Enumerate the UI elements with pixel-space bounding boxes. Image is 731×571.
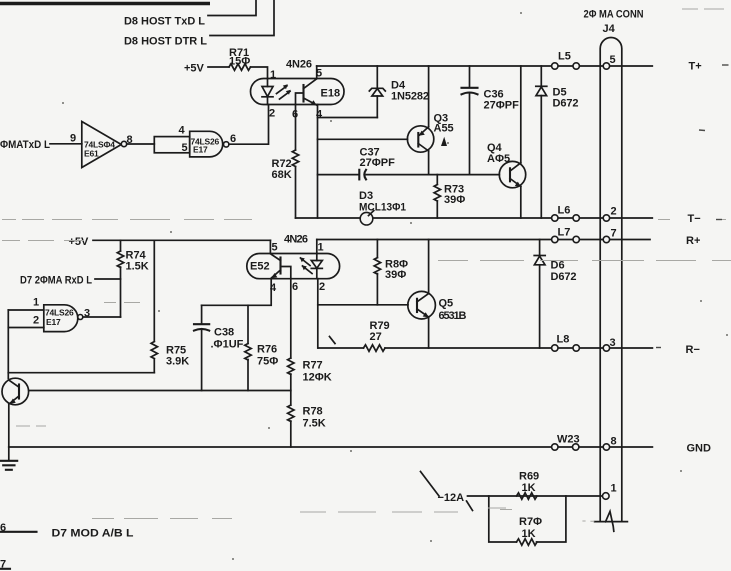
svg-text:27: 27 [370,331,382,343]
wire D8 HOST DTR L [210,0,274,36]
wire D8 HOST TXD L [208,0,256,16]
svg-text:4: 4 [179,125,186,137]
wire left vertical bus (pins 1,2 to Q6) [7,310,9,373]
node L7 loop [552,227,580,243]
svg-text:E18: E18 [321,88,341,100]
wire R- rail left part [318,347,363,349]
svg-text:5: 5 [610,54,616,66]
transistor Q6 (left edge) [2,373,29,447]
svg-text:T−: T− [688,213,701,225]
pen slash near E52 R- area [330,337,336,344]
svg-text:1.5K: 1.5K [126,261,149,273]
svg-text:ΦMATxD L: ΦMATxD L [0,139,50,151]
svg-text:R76: R76 [257,344,277,356]
svg-text:E17: E17 [46,317,61,327]
svg-text:E52: E52 [250,261,270,273]
wire R70 parallel loop [489,496,566,542]
diode D3 MCL1301 (on T- line) [359,190,406,225]
resistor R78 7.5K [288,405,326,447]
svg-text:4N26: 4N26 [284,234,308,246]
svg-text:−12A: −12A [438,492,465,504]
svg-text:1K: 1K [522,482,536,494]
transistor inside E18 [296,79,317,106]
connector J4 break squiggle [606,511,614,531]
svg-text:1: 1 [318,242,324,254]
svg-text:7: 7 [611,228,617,240]
scan noise dashes right edge rows [656,65,729,348]
svg-text:C38: C38 [214,327,234,339]
svg-text:2: 2 [33,315,39,327]
wire base feed to Q3 [318,138,408,140]
resistor R70 1K [517,516,543,545]
wire RXD to R74 vertical [95,278,121,280]
svg-text:E17: E17 [193,145,208,155]
transistor Q3 A55 [407,66,453,175]
pin 2 of J4 [603,206,616,222]
svg-text:R69: R69 [519,471,539,483]
svg-text:3.9K: 3.9K [166,356,189,368]
wire R+ rail [317,239,650,241]
svg-text:8: 8 [611,436,617,448]
logic-gate NAND 74LS26 E17 (pins 1,2,3) [8,297,90,332]
diode D6 D672 [534,240,576,349]
svg-text:.Φ1UF: .Φ1UF [211,339,244,351]
wire pin2 branch to Q5 base [318,304,408,306]
pin 7 of J4 [603,228,616,243]
node 6 (sheet ref) [0,522,37,534]
svg-text:D3: D3 [359,190,373,202]
svg-text:R7Φ: R7Φ [519,516,542,528]
svg-text:R78: R78 [303,406,323,418]
wire inverter to input rect [127,143,155,145]
wire R- rail right part [385,347,652,349]
ground symbol [1,447,18,470]
pen slash near -12A [421,472,473,511]
wire input splitter rectangle [154,137,189,153]
pin 3 of J4 [603,337,615,351]
svg-text:2: 2 [319,281,325,293]
svg-text:E61: E61 [84,149,99,159]
svg-text:4N26: 4N26 [286,59,312,71]
svg-text:5: 5 [272,242,278,254]
wire GND rail [9,446,653,448]
wire E52 pin5 up to +5V rail [269,240,271,253]
wire T+ rail [317,65,653,67]
wire -12A row [468,495,604,497]
op-amp: none / opto-coupler U E18 4N26 body [251,59,345,105]
svg-text:J4: J4 [603,23,616,35]
svg-text:5: 5 [182,142,188,154]
svg-text:2Φ MA CONN: 2Φ MA CONN [584,9,644,21]
wire E52 pin1 up to R+ rail [316,240,318,254]
resistor R73 390 [434,175,465,218]
wire input to inverter [50,143,82,145]
wire base rail y390 [29,390,291,392]
node L6 loop [552,205,580,222]
diode D4 1N5282 zener [369,66,429,118]
wire E52 pin2 down to R- line [317,279,319,348]
svg-text:T+: T+ [689,61,702,73]
svg-text:1: 1 [611,483,617,495]
inverter 74LS04 E61 [82,122,127,168]
node 7 (sheet ref) [0,559,10,571]
svg-text:A55: A55 [434,123,454,135]
wire +5V to R71 [208,66,229,68]
svg-text:GND: GND [687,443,712,455]
capacitor C38 .01UF [194,305,244,390]
svg-text:39Φ: 39Φ [444,194,465,206]
svg-text:D8 HOST DTR L: D8 HOST DTR L [124,36,207,48]
resistor R69 1K [517,471,540,500]
svg-text:68K: 68K [272,169,292,181]
svg-text:2: 2 [269,108,275,120]
transistor Q5 6531B [408,240,467,349]
wire +5V rail to E52 pin5 [93,239,270,241]
wire E18 pin 4 down long vertical [317,105,319,219]
resistor R76 750 [245,305,278,390]
node L5 loop [552,51,580,70]
wire gate E17 out to E18 pin 2 [229,105,269,145]
resistor R79 27 (series in R- line) [364,320,390,351]
svg-text:6: 6 [292,281,298,293]
svg-text:1: 1 [270,69,276,81]
svg-text:2: 2 [611,206,617,218]
connector J4 bottom edge [595,521,628,523]
svg-text:9: 9 [70,133,76,145]
svg-text:L8: L8 [557,334,570,346]
svg-text:1: 1 [33,297,39,309]
svg-text:74LS26: 74LS26 [45,308,74,318]
svg-text:27ΦPF: 27ΦPF [484,100,520,112]
svg-text:3: 3 [610,337,616,349]
svg-text:R77: R77 [303,360,323,372]
svg-text:L7: L7 [558,227,571,239]
node W23 jumper [552,434,580,451]
wire E52 pin6 down [290,279,292,358]
svg-text:7.5K: 7.5K [303,418,326,430]
wire E18 pin5 up to T+ rail [316,66,318,79]
pin 8 of J4 [603,436,616,451]
svg-text:1N5282: 1N5282 [391,91,429,103]
resistor R74 1.5K [117,240,148,317]
pin 1 of J4 [603,483,617,500]
svg-text:L6: L6 [558,205,571,217]
svg-text:6: 6 [230,133,236,145]
wire gate output to R74 bottom [83,316,121,318]
connector bottom dash-dot [582,520,594,522]
svg-text:R+: R+ [686,235,700,247]
resistor R75 3.9K [151,240,189,372]
svg-text:75Φ: 75Φ [257,356,278,368]
pin 5 of J4 [603,54,615,69]
svg-text:12ΦK: 12ΦK [303,372,332,384]
svg-text:D672: D672 [551,271,577,283]
wire T- rail [296,217,653,219]
wire E52 pin4 down and left to C38 top [202,279,272,306]
svg-text:6531B: 6531B [439,310,467,322]
svg-text:D8 HOST TxD L: D8 HOST TxD L [124,16,205,28]
resistor R80 390 [374,240,408,305]
diode D5 D672 [536,66,579,218]
svg-text:R−: R− [686,344,700,356]
wire R71 to opto pin 1 [251,67,268,79]
svg-text:Q5: Q5 [439,298,454,310]
wire E18 pin 6 down + resistor R72 68K [272,105,299,219]
resistor R71 150 [229,47,251,70]
capacitor C36 270PF [462,66,520,175]
node L8 loop [552,334,580,352]
svg-text:D7 MOD A/B L: D7 MOD A/B L [52,528,134,540]
transistor inside E52 [271,254,291,279]
transistor Q4 A05 [487,66,526,218]
svg-text:D7 2ΦMA RxD L: D7 2ΦMA RxD L [20,275,92,287]
svg-text:39Φ: 39Φ [385,269,406,281]
svg-text:D672: D672 [553,98,579,110]
svg-text:+5V: +5V [184,63,205,75]
svg-text:+5V: +5V [69,236,90,248]
connector J4 body [600,38,622,522]
capacitor C37 270PF (series) [318,147,500,180]
diode LED inside E18 [262,79,291,105]
wire: top border thick line [0,2,210,6]
logic-gate NAND 74LS26 E17 (pins 4,5,6) [179,125,229,157]
wire R75 bottom to left bus [8,372,154,374]
svg-text:D6: D6 [551,260,565,272]
svg-text:1K: 1K [522,528,536,540]
opto-coupler E52 4N26 body [247,234,340,279]
svg-text:L5: L5 [558,51,571,63]
wire D4 bottom to pin4 vertical [318,117,378,119]
resistor R77 120K [288,358,332,405]
diode LED inside E52 [300,254,323,279]
svg-text:27ΦPF: 27ΦPF [360,157,396,169]
